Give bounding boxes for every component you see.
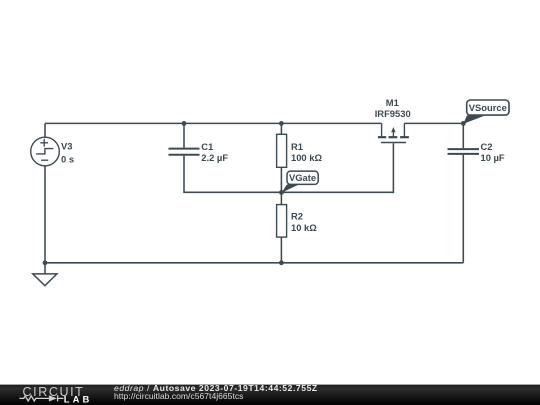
wire R1 bottom lead: [280, 167, 282, 192]
svg-text:10 µF: 10 µF: [481, 152, 505, 163]
net flag VSource: [463, 100, 509, 124]
node VSource net: [461, 121, 466, 126]
voltage source V3: [31, 137, 60, 166]
wire top rail right (M1 drain to VSource node): [404, 122, 463, 124]
wire VGate node to M1 gate: [281, 143, 393, 192]
node VGate net: [279, 190, 284, 195]
svg-text:M1: M1: [386, 97, 399, 108]
wire bottom ground rail: [45, 262, 463, 264]
resistor R2: [277, 205, 287, 238]
svg-text:2.2 µF: 2.2 µF: [201, 152, 228, 163]
svg-text:R1: R1: [291, 141, 303, 152]
wire C2 bottom lead: [462, 155, 464, 263]
wire C1 bottom lead to VGate node: [184, 156, 281, 193]
wire R2 bottom lead: [280, 237, 282, 263]
net flag VGate: [281, 171, 318, 193]
node junction R1 top: [279, 121, 284, 126]
svg-text:10 kΩ: 10 kΩ: [291, 222, 317, 233]
svg-text:http://circuitlab.com/c567t4j6: http://circuitlab.com/c567t4j665tcs: [114, 391, 243, 401]
wire C2 top lead: [462, 123, 464, 148]
node junction C1 top: [182, 121, 187, 126]
logo resistor zigzag and diode: [19, 395, 63, 401]
wire top rail left (V3 to M1 source): [45, 122, 382, 124]
ground: [33, 274, 57, 286]
svg-text:V3: V3: [61, 140, 72, 151]
svg-text:VSource: VSource: [469, 102, 507, 113]
svg-text:IRF9530: IRF9530: [375, 108, 411, 119]
svg-text:C1: C1: [201, 141, 213, 152]
node junction R2 bottom: [279, 260, 284, 265]
svg-text:C2: C2: [481, 141, 493, 152]
svg-text:VGate: VGate: [289, 172, 316, 183]
svg-text:100 kΩ: 100 kΩ: [291, 152, 322, 163]
wire V3 bottom lead: [44, 166, 46, 263]
wire ground stub: [44, 263, 46, 274]
wire R1 top lead: [280, 123, 282, 134]
wire R2 top lead: [280, 192, 282, 204]
svg-text:0 s: 0 s: [61, 154, 74, 165]
wire V3 top lead: [44, 123, 46, 137]
wire C1 top lead: [183, 123, 185, 147]
node junction ground left: [43, 260, 48, 265]
capacitor C1: [169, 149, 200, 155]
resistor R1: [277, 134, 287, 167]
capacitor C2: [448, 149, 480, 154]
footer bar: [0, 385, 540, 405]
svg-text:LAB: LAB: [64, 394, 93, 405]
svg-text:R2: R2: [291, 210, 303, 221]
transistor M1 (PMOS IRF9530): [378, 123, 409, 142]
